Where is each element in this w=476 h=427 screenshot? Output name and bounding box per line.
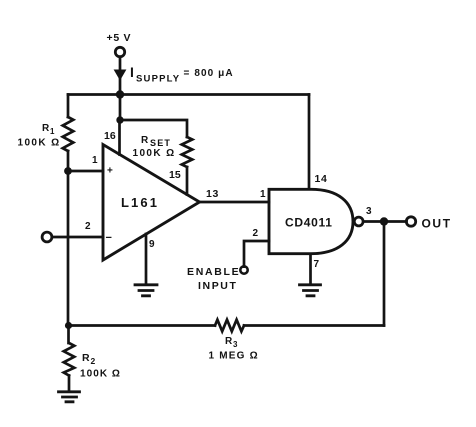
svg-text:OUT: OUT xyxy=(422,217,452,231)
svg-text:R: R xyxy=(42,123,50,134)
svg-text:3: 3 xyxy=(233,340,238,349)
supply arrow xyxy=(114,70,127,81)
svg-text:1: 1 xyxy=(260,189,266,200)
wire input to op-amp minus xyxy=(52,236,103,239)
svg-text:14: 14 xyxy=(315,173,328,185)
wire R2 top xyxy=(67,326,70,344)
node +5V terminal xyxy=(115,47,124,56)
gate U2 CD4011 xyxy=(269,189,353,253)
svg-text:= 800 μA: = 800 μA xyxy=(184,68,234,79)
wire pin7 stem xyxy=(309,254,312,284)
svg-text:13: 13 xyxy=(206,188,219,200)
svg-text:INPUT: INPUT xyxy=(198,280,238,292)
op-amp U1 L161 xyxy=(103,145,200,261)
wire Rset top xyxy=(120,120,187,137)
ground R2 xyxy=(59,392,80,402)
node gate output bubble xyxy=(354,217,363,226)
svg-text:R: R xyxy=(141,135,149,146)
svg-text:2: 2 xyxy=(91,356,96,366)
svg-text:16: 16 xyxy=(104,130,116,142)
node input terminal xyxy=(42,232,52,242)
node OUT terminal xyxy=(406,217,415,226)
svg-text:3: 3 xyxy=(366,206,372,217)
wire pin9 stem xyxy=(145,234,148,284)
resistor R1 xyxy=(63,117,74,151)
ground gate xyxy=(300,285,321,296)
wire bottom rail left xyxy=(68,324,215,327)
svg-text:R: R xyxy=(225,336,233,347)
wire R2 bottom xyxy=(68,376,71,391)
svg-text:9: 9 xyxy=(149,239,155,250)
wire pin1 to op-amp xyxy=(68,170,103,173)
resistor RSET xyxy=(182,137,193,167)
wire left rail lower xyxy=(67,151,70,326)
svg-text:1 MEG Ω: 1 MEG Ω xyxy=(209,351,259,362)
svg-text:100K Ω: 100K Ω xyxy=(80,369,121,380)
svg-text:+5 V: +5 V xyxy=(107,32,132,44)
wire pin14 stem xyxy=(308,95,311,190)
svg-text:I: I xyxy=(130,64,134,80)
svg-text:2: 2 xyxy=(253,228,259,239)
junction supply/Rset xyxy=(116,116,123,123)
svg-text:100K Ω: 100K Ω xyxy=(18,138,61,149)
svg-text:CD4011: CD4011 xyxy=(285,216,333,230)
wire supply arrow to rail xyxy=(119,78,122,120)
svg-text:2: 2 xyxy=(85,221,91,232)
node enable terminal xyxy=(240,266,247,273)
wire +5V stem xyxy=(119,57,122,70)
junction bottom-left corner xyxy=(65,322,72,329)
svg-text:15: 15 xyxy=(169,169,181,181)
wire bottom rail right xyxy=(244,324,384,327)
wire pin15 stem xyxy=(186,167,189,195)
svg-text:100K Ω: 100K Ω xyxy=(133,148,176,159)
resistor R3 xyxy=(215,320,244,332)
junction supply/top rail xyxy=(116,90,124,98)
svg-text:SET: SET xyxy=(150,138,171,148)
wire op-amp output to gate xyxy=(200,201,270,204)
svg-text:SUPPLY: SUPPLY xyxy=(136,74,180,85)
junction pin1/left rail xyxy=(64,167,72,175)
svg-text:L161: L161 xyxy=(121,195,159,210)
resistor R2 xyxy=(64,343,75,376)
wire left rail upper xyxy=(67,95,70,118)
svg-text:R: R xyxy=(82,352,90,364)
svg-text:+: + xyxy=(107,166,113,177)
ground op-amp xyxy=(135,285,157,296)
svg-text:1: 1 xyxy=(92,155,98,166)
junction output/feedback xyxy=(380,217,388,225)
svg-text:1: 1 xyxy=(50,127,55,136)
svg-text:−: − xyxy=(106,232,112,244)
wire feedback vertical xyxy=(383,222,386,326)
wire gate output xyxy=(363,220,406,223)
wire pin2 enable xyxy=(244,241,269,267)
wire pin16 stem xyxy=(118,120,121,155)
svg-text:7: 7 xyxy=(314,259,320,270)
wire top rail xyxy=(68,93,309,96)
svg-text:ENABLE: ENABLE xyxy=(187,266,240,278)
